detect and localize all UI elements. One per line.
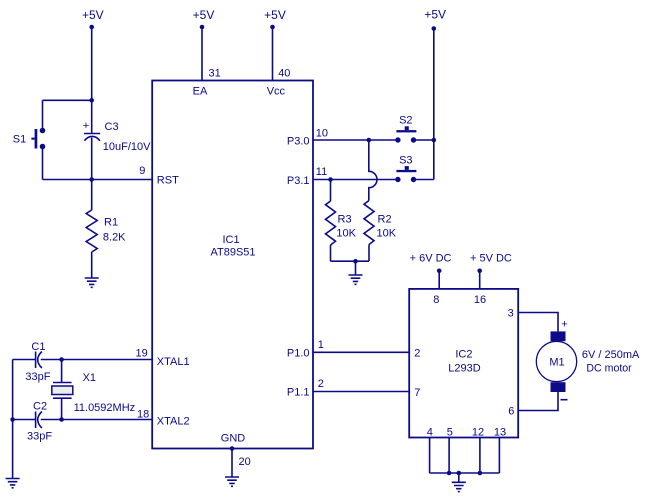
- wire P3.1 to S3: [313, 179, 398, 181]
- svg-text:X1: X1: [83, 372, 96, 384]
- svg-text:4: 4: [427, 427, 433, 439]
- +5V supply node (Vcc pin 40): [264, 8, 286, 29]
- wire S1 upper leg: [42, 100, 44, 130]
- svg-text:7: 7: [414, 387, 420, 399]
- node P3.1/R3 junction: [328, 177, 333, 182]
- +5V supply node (reset branch): [82, 8, 104, 29]
- svg-text:+ 5V DC: + 5V DC: [470, 253, 512, 265]
- wire S3 to +5V rail: [414, 179, 434, 181]
- svg-text:10K: 10K: [336, 227, 356, 239]
- wire P3.0 to S2: [313, 139, 398, 141]
- pin 3 label: [508, 308, 514, 320]
- svg-text:40: 40: [278, 68, 290, 80]
- wire IC2 pin 12: [479, 438, 481, 474]
- svg-text:S3: S3: [399, 155, 412, 167]
- pin 8 label: [433, 294, 439, 306]
- svg-text:10: 10: [316, 127, 328, 139]
- svg-text:+5V: +5V: [424, 8, 446, 22]
- svg-text:18: 18: [137, 409, 149, 421]
- svg-text:L293D: L293D: [448, 363, 480, 375]
- wire R3/R2 bottom rail: [331, 260, 370, 262]
- resistor R2: [364, 201, 397, 262]
- wire IC2 pin 13: [498, 438, 500, 474]
- +6V DC supply node: [410, 253, 452, 274]
- pin 1 label: [318, 339, 324, 351]
- IC U2 L293D body: [409, 289, 518, 438]
- +5V DC supply node: [470, 253, 512, 274]
- switch S3: [395, 155, 416, 183]
- svg-text:S1: S1: [13, 134, 26, 146]
- wire IC2 pin 4: [429, 438, 431, 474]
- svg-text:6V / 250mA: 6V / 250mA: [582, 349, 640, 361]
- wire IC2 pin 8: [438, 271, 440, 289]
- svg-text:IC2: IC2: [455, 349, 472, 361]
- svg-text:Vcc: Vcc: [267, 86, 286, 98]
- node S2/+5V rail junction: [432, 138, 437, 143]
- svg-text:DC motor: DC motor: [586, 363, 632, 375]
- svg-text:11: 11: [316, 166, 327, 178]
- ground (R1): [85, 278, 99, 287]
- svg-text:13: 13: [494, 427, 506, 439]
- svg-text:EA: EA: [193, 86, 208, 98]
- ground (IC2): [452, 482, 466, 491]
- wire S1 top branch: [43, 99, 92, 101]
- svg-text:12: 12: [472, 427, 484, 439]
- svg-text:+ 6V DC: + 6V DC: [410, 253, 452, 265]
- pin 40 label: [278, 68, 290, 80]
- svg-text:M1: M1: [549, 357, 564, 369]
- svg-text:GND: GND: [221, 433, 246, 445]
- svg-text:2: 2: [318, 378, 324, 390]
- svg-text:C3: C3: [105, 121, 119, 133]
- svg-text:10K: 10K: [377, 227, 397, 239]
- svg-text:XTAL2: XTAL2: [157, 416, 190, 428]
- svg-text:P3.0: P3.0: [287, 135, 310, 147]
- pin 7 label (IC2): [414, 387, 420, 399]
- svg-text:S2: S2: [399, 115, 412, 127]
- pin 20 label: [239, 456, 251, 468]
- svg-text:+: +: [83, 120, 89, 132]
- node RST junction: [89, 177, 94, 182]
- wire IC2 pin 16: [479, 271, 481, 289]
- switch S1: [13, 128, 46, 150]
- pin 16 label: [474, 294, 486, 306]
- wire Vcc pin 40: [272, 27, 274, 81]
- svg-text:9: 9: [139, 165, 145, 177]
- svg-text:16: 16: [474, 294, 486, 306]
- wire ground stem (R3/R2): [355, 261, 357, 275]
- svg-text:+5V: +5V: [193, 8, 215, 22]
- wire C1 to IC1 pin 19: [41, 359, 152, 361]
- svg-text:+5V: +5V: [264, 8, 286, 22]
- svg-text:5: 5: [447, 427, 453, 439]
- crystal X1: [52, 360, 135, 420]
- motor + terminal label: [561, 319, 567, 331]
- pin 11 label: [316, 166, 327, 178]
- svg-text:P1.0: P1.0: [287, 347, 310, 359]
- node XTAL1/X1 junction: [59, 357, 64, 362]
- svg-text:IC1: IC1: [222, 234, 239, 246]
- resistor R3: [326, 180, 357, 262]
- IC U1 AT89S51 body: [152, 81, 313, 449]
- wire IC2 pin 6 to motor -: [518, 392, 558, 411]
- svg-text:XTAL1: XTAL1: [157, 356, 190, 368]
- pin 2 label (IC1): [318, 378, 324, 390]
- svg-text:33pF: 33pF: [25, 371, 50, 383]
- svg-text:C1: C1: [31, 341, 45, 353]
- pin 19 label: [136, 348, 148, 360]
- node junction S1 top branch: [89, 98, 94, 103]
- wire +5V to C3 top: [91, 27, 93, 134]
- wire S1 lower leg: [42, 147, 44, 180]
- pin 13 label: [494, 427, 506, 439]
- svg-text:31: 31: [209, 68, 221, 80]
- node rail/pin12 junction: [478, 471, 483, 476]
- svg-text:11.0592MHz: 11.0592MHz: [74, 402, 136, 414]
- pin 31 label: [209, 68, 221, 80]
- svg-text:+: +: [561, 319, 567, 331]
- wire C2 to IC1 pin 18: [41, 419, 152, 421]
- node P3.0/R2 junction: [367, 138, 372, 143]
- wire S2 to +5V rail: [414, 139, 434, 141]
- wire RST to IC1 pin 9: [43, 179, 153, 181]
- +5V supply node (switch rail): [424, 8, 446, 31]
- wire C3 bottom to RST node: [91, 138, 93, 180]
- svg-text:8.2K: 8.2K: [103, 232, 126, 244]
- wire IC2 pin 5: [448, 438, 450, 474]
- pin 2 label (IC2): [414, 348, 420, 360]
- switch S2: [395, 115, 416, 143]
- node XTAL2/X1 junction: [59, 417, 64, 422]
- svg-text:R1: R1: [104, 217, 118, 229]
- resistor R1: [86, 180, 126, 279]
- wire +5V switch rail: [433, 29, 435, 180]
- +5V supply node (EA pin 31): [193, 8, 215, 29]
- svg-text:1: 1: [318, 339, 324, 351]
- wire left to C1: [13, 359, 35, 361]
- svg-text:P1.1: P1.1: [287, 387, 310, 399]
- wire R2 branch with hop over P3.1: [369, 140, 377, 201]
- capacitor C1: [25, 341, 50, 383]
- wire P1.0 to IC2 pin 2: [313, 351, 409, 353]
- pin 6 label: [508, 406, 514, 418]
- svg-text:6: 6: [508, 406, 514, 418]
- wire oscillator left vertical: [12, 360, 14, 479]
- motor value label: [582, 349, 640, 375]
- node bottom rail junction: [353, 259, 358, 264]
- svg-text:R3: R3: [338, 213, 352, 225]
- svg-text:33pF: 33pF: [27, 431, 52, 443]
- svg-text:C2: C2: [33, 401, 47, 413]
- node rail/ground junction: [457, 471, 462, 476]
- svg-text:AT89S51: AT89S51: [210, 247, 255, 259]
- capacitor C2: [27, 401, 52, 443]
- svg-text:20: 20: [239, 456, 251, 468]
- node left vertical/XTAL2 junction: [10, 417, 15, 422]
- wire EA pin 31: [201, 27, 203, 81]
- wire IC2 bottom rail: [430, 472, 500, 474]
- svg-text:R2: R2: [378, 213, 392, 225]
- wire GND pin 20: [231, 449, 233, 478]
- pin 4 label: [427, 427, 433, 439]
- svg-text:P3.1: P3.1: [287, 175, 310, 187]
- ground (oscillator): [6, 479, 20, 488]
- ground (R3/R2): [349, 275, 363, 284]
- svg-text:3: 3: [508, 308, 514, 320]
- wire ground stem (IC2): [458, 473, 460, 482]
- capacitor C3: [83, 120, 151, 153]
- motor - terminal label: [561, 399, 568, 401]
- ground (IC1 GND): [225, 477, 239, 486]
- node rail/pin5 junction: [447, 471, 452, 476]
- pin 10 label: [316, 127, 328, 139]
- svg-text:+5V: +5V: [82, 8, 104, 22]
- wire P1.1 to IC2 pin 7: [313, 391, 409, 393]
- node GND pin 20: [230, 446, 235, 451]
- svg-text:19: 19: [136, 348, 148, 360]
- wire IC2 pin 3 to motor +: [518, 313, 558, 332]
- pin 12 label: [472, 427, 484, 439]
- svg-text:2: 2: [414, 348, 420, 360]
- pin 9 label: [139, 165, 145, 177]
- svg-text:10uF/10V: 10uF/10V: [103, 141, 151, 153]
- pin 18 label: [137, 409, 149, 421]
- svg-text:RST: RST: [157, 175, 179, 187]
- svg-text:8: 8: [433, 294, 439, 306]
- pin 5 label: [447, 427, 453, 439]
- motor M1: [536, 331, 576, 392]
- wire left to C2: [13, 419, 35, 421]
